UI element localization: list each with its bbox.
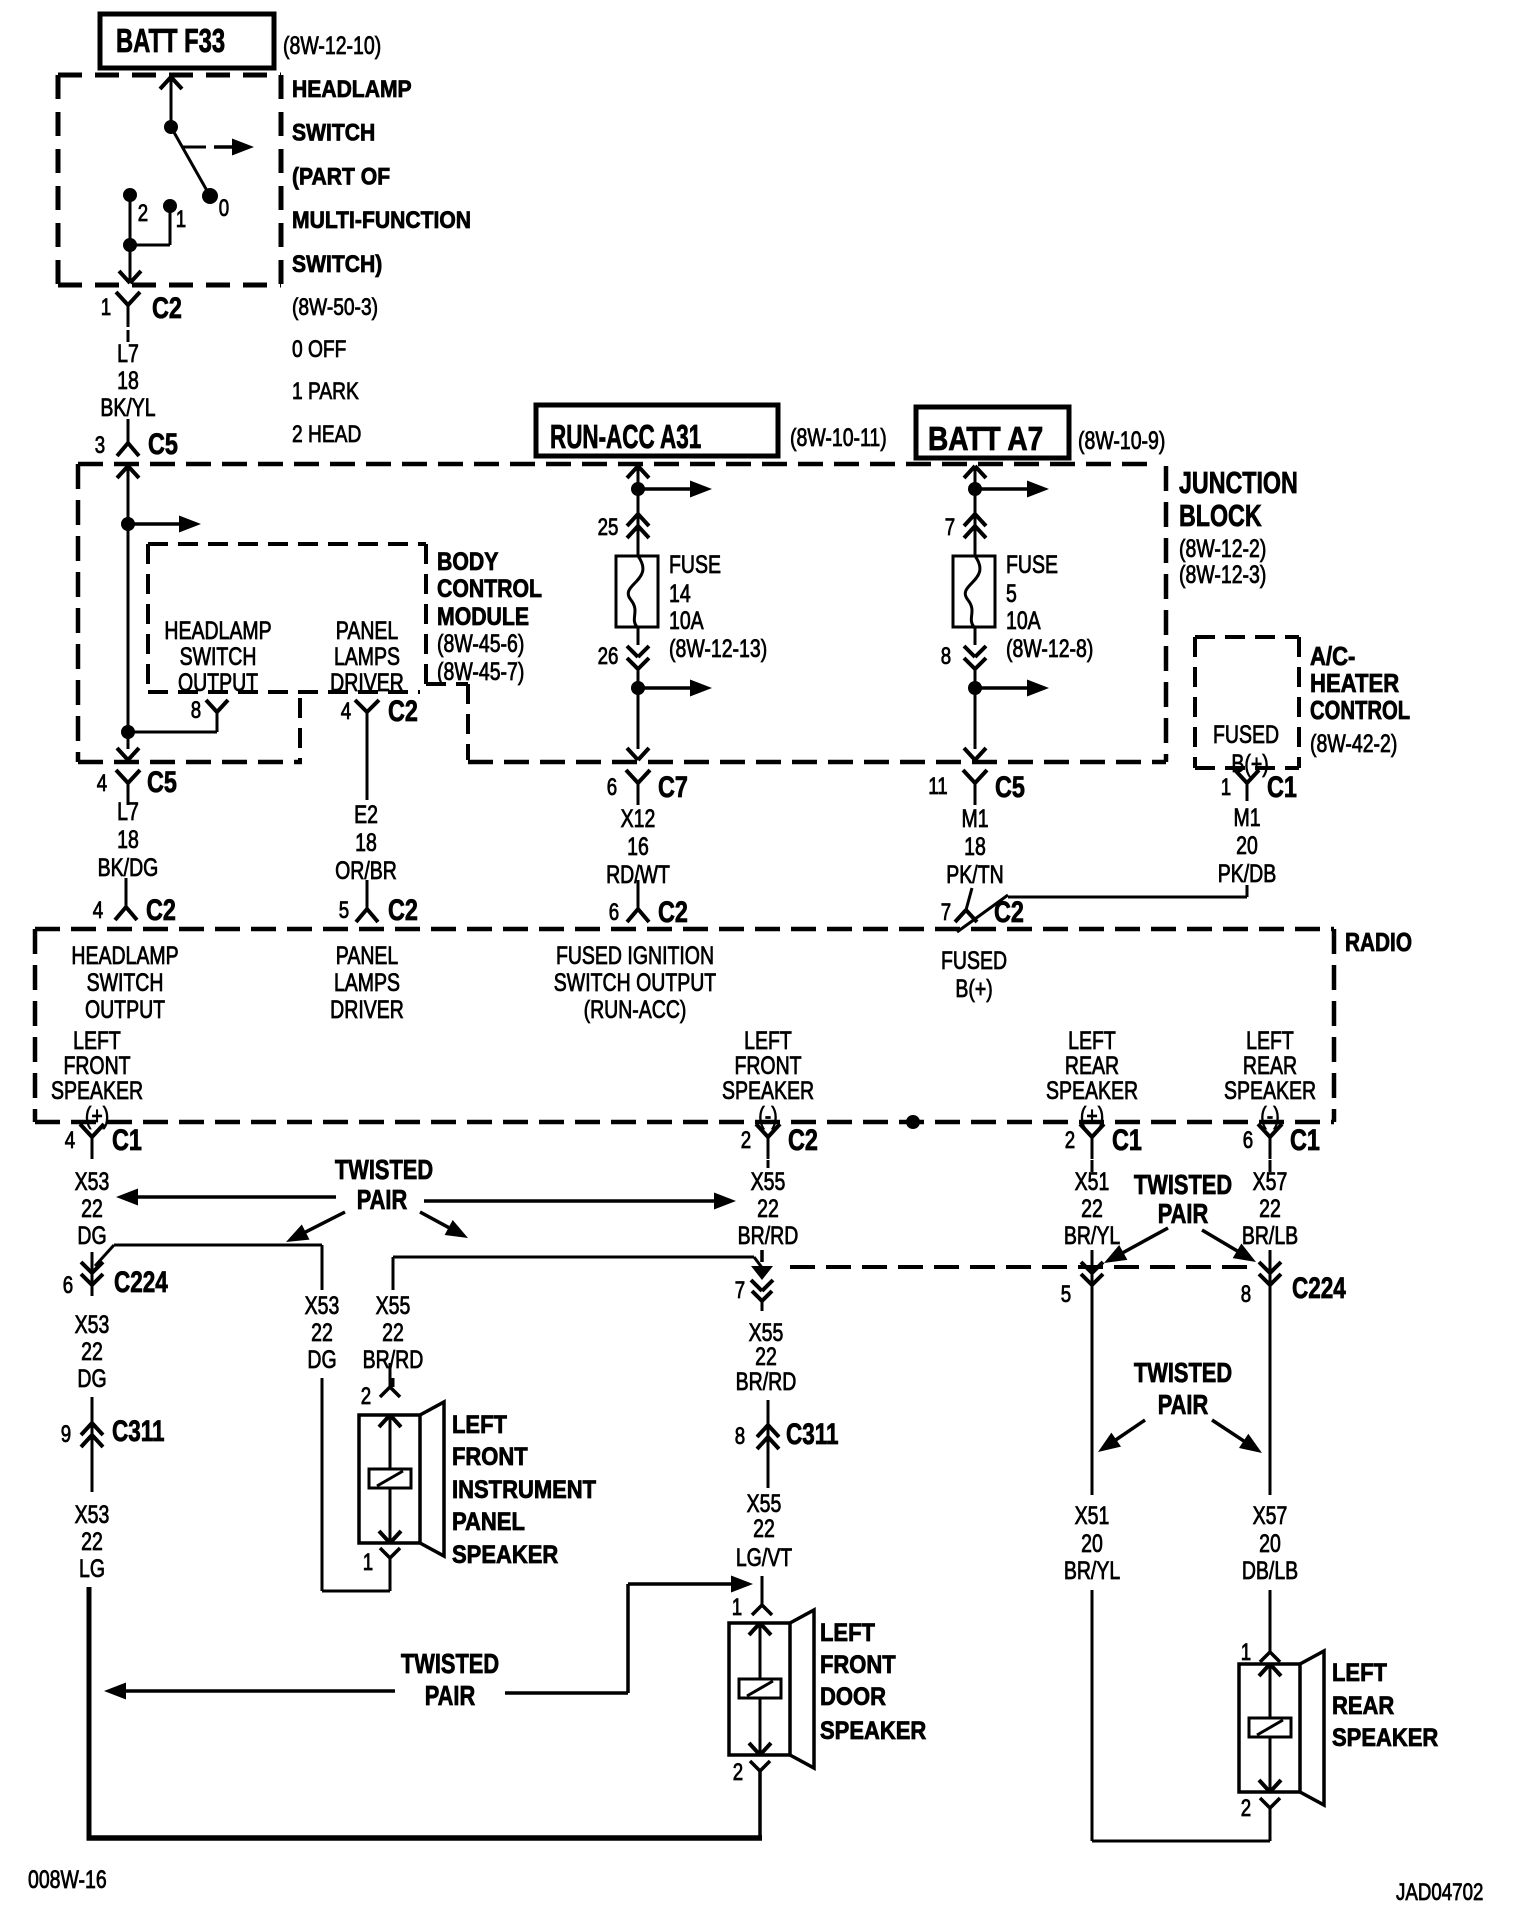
svg-text:BR/RD: BR/RD [736,1368,797,1396]
svg-text:CONTROL: CONTROL [437,574,542,602]
svg-text:BK/YL: BK/YL [100,394,155,422]
svg-text:DB/LB: DB/LB [1242,1557,1298,1585]
svg-text:C5: C5 [147,765,177,798]
svg-text:C1: C1 [1112,1123,1142,1156]
svg-text:INSTRUMENT: INSTRUMENT [452,1476,597,1504]
svg-text:DG: DG [77,1365,106,1393]
svg-text:(8W-45-7): (8W-45-7) [437,658,524,686]
svg-text:M1: M1 [961,805,988,833]
svg-text:BATT A7: BATT A7 [928,421,1043,458]
svg-text:22: 22 [755,1343,777,1371]
svg-text:X12: X12 [621,805,656,833]
svg-text:C5: C5 [995,770,1025,803]
svg-text:PAIR: PAIR [1158,1389,1209,1420]
svg-text:JUNCTION: JUNCTION [1179,465,1298,500]
svg-text:FUSED: FUSED [1213,721,1279,749]
svg-text:22: 22 [311,1319,333,1347]
svg-text:SPEAKER: SPEAKER [1332,1724,1438,1752]
svg-text:22: 22 [1081,1195,1103,1223]
svg-text:16: 16 [627,833,649,861]
svg-text:(PART OF: (PART OF [292,163,390,190]
svg-text:25: 25 [598,514,619,541]
svg-text:2: 2 [1241,1795,1251,1822]
svg-text:C5: C5 [148,427,178,460]
svg-text:MULTI-FUNCTION: MULTI-FUNCTION [292,207,471,234]
svg-text:14: 14 [669,580,691,608]
svg-text:26: 26 [598,643,619,670]
svg-text:0 OFF: 0 OFF [292,335,346,363]
svg-text:2: 2 [138,200,148,227]
svg-text:LEFT: LEFT [1332,1659,1388,1687]
svg-text:RUN-ACC A31: RUN-ACC A31 [550,418,701,455]
svg-text:PAIR: PAIR [357,1184,408,1215]
svg-text:DRIVER: DRIVER [330,669,404,697]
svg-text:BR/LB: BR/LB [1242,1222,1298,1250]
svg-text:6: 6 [609,899,619,926]
svg-text:RADIO: RADIO [1345,928,1412,957]
svg-text:X53: X53 [75,1311,110,1339]
svg-text:TWISTED: TWISTED [401,1648,499,1679]
svg-text:PAIR: PAIR [1158,1198,1209,1229]
svg-text:X55: X55 [751,1168,786,1196]
svg-text:HEADLAMP: HEADLAMP [71,942,178,970]
svg-text:2: 2 [1065,1127,1075,1154]
svg-text:8: 8 [1241,1281,1251,1308]
svg-text:C1: C1 [1267,770,1297,803]
svg-text:1: 1 [1241,1639,1251,1666]
svg-text:8: 8 [735,1423,745,1450]
svg-text:B(+): B(+) [955,975,992,1003]
svg-text:X53: X53 [75,1168,110,1196]
svg-text:C224: C224 [1292,1271,1346,1305]
svg-text:LG/VT: LG/VT [736,1544,793,1572]
svg-text:2: 2 [361,1383,371,1410]
svg-text:(-): (-) [758,1102,777,1130]
svg-text:1 PARK: 1 PARK [292,377,359,405]
svg-text:X57: X57 [1253,1502,1288,1530]
svg-text:LAMPS: LAMPS [334,969,400,997]
svg-text:BR/YL: BR/YL [1064,1222,1120,1250]
svg-text:SWITCH OUTPUT: SWITCH OUTPUT [554,969,717,997]
svg-text:008W-16: 008W-16 [28,1866,107,1894]
svg-text:L7: L7 [117,798,139,826]
svg-text:(8W-12-8): (8W-12-8) [1006,635,1093,663]
svg-text:6: 6 [1243,1127,1253,1154]
svg-text:1: 1 [1221,774,1231,801]
svg-text:2: 2 [741,1127,751,1154]
svg-text:22: 22 [753,1515,775,1543]
svg-text:A/C-: A/C- [1310,642,1355,671]
svg-text:20: 20 [1259,1530,1281,1558]
svg-text:E2: E2 [354,801,378,829]
svg-text:1: 1 [176,206,186,233]
svg-text:FUSED IGNITION: FUSED IGNITION [556,942,714,970]
svg-text:1: 1 [101,294,111,321]
svg-text:8: 8 [941,643,951,670]
svg-text:SWITCH: SWITCH [180,643,257,671]
svg-text:REAR: REAR [1243,1052,1297,1080]
svg-text:BK/DG: BK/DG [98,854,159,882]
svg-text:18: 18 [117,367,139,395]
svg-text:HEATER: HEATER [1310,669,1399,698]
svg-text:DG: DG [307,1346,336,1374]
svg-text:22: 22 [81,1528,103,1556]
svg-text:C2: C2 [152,291,182,324]
svg-text:22: 22 [81,1338,103,1366]
svg-text:(8W-50-3): (8W-50-3) [292,293,378,321]
svg-text:FUSED: FUSED [941,947,1007,975]
svg-text:HEADLAMP: HEADLAMP [292,76,412,103]
svg-text:SWITCH: SWITCH [87,969,164,997]
svg-text:(8W-12-10): (8W-12-10) [283,32,381,60]
svg-text:FUSE: FUSE [669,551,721,579]
svg-text:4: 4 [93,897,103,924]
svg-text:(8W-10-9): (8W-10-9) [1078,427,1165,455]
svg-text:10A: 10A [669,607,704,635]
svg-text:SWITCH): SWITCH) [292,251,382,278]
svg-text:22: 22 [382,1319,404,1347]
svg-text:(8W-10-11): (8W-10-11) [790,424,887,452]
svg-text:20: 20 [1236,832,1258,860]
svg-text:C1: C1 [1290,1123,1320,1156]
svg-text:SPEAKER: SPEAKER [1046,1077,1138,1105]
svg-text:M1: M1 [1233,804,1260,832]
svg-text:C1: C1 [112,1123,142,1156]
svg-text:X55: X55 [376,1292,411,1320]
svg-text:7: 7 [735,1277,745,1304]
svg-text:6: 6 [63,1272,73,1299]
svg-text:C311: C311 [786,1417,839,1451]
svg-text:BATT F33: BATT F33 [116,23,225,60]
svg-text:LEFT: LEFT [452,1411,508,1439]
svg-text:6: 6 [607,774,617,801]
svg-text:7: 7 [945,514,955,541]
svg-text:5: 5 [1006,580,1017,608]
svg-text:X55: X55 [747,1490,782,1518]
svg-text:LEFT: LEFT [1246,1027,1294,1055]
svg-text:LAMPS: LAMPS [334,643,400,671]
svg-text:BLOCK: BLOCK [1179,498,1262,533]
svg-text:DG: DG [77,1222,106,1250]
svg-text:PK/DB: PK/DB [1218,860,1276,888]
svg-text:TWISTED: TWISTED [335,1154,433,1185]
svg-text:BR/RD: BR/RD [738,1222,799,1250]
svg-text:SPEAKER: SPEAKER [722,1077,814,1105]
svg-text:FUSE: FUSE [1006,551,1058,579]
svg-text:CONTROL: CONTROL [1310,696,1410,725]
svg-text:8: 8 [191,697,201,724]
svg-text:C7: C7 [658,770,688,803]
svg-text:LEFT: LEFT [820,1619,876,1647]
svg-text:18: 18 [355,829,377,857]
svg-text:9: 9 [61,1421,71,1448]
svg-text:C2: C2 [146,893,176,926]
svg-text:10A: 10A [1006,607,1041,635]
svg-text:SPEAKER: SPEAKER [1224,1077,1316,1105]
svg-text:SPEAKER: SPEAKER [820,1717,926,1745]
svg-text:18: 18 [117,826,139,854]
svg-text:2 HEAD: 2 HEAD [292,420,361,448]
svg-text:PANEL: PANEL [336,942,398,970]
svg-text:LEFT: LEFT [1068,1027,1116,1055]
svg-text:REAR: REAR [1332,1692,1394,1720]
svg-text:FRONT: FRONT [820,1651,896,1679]
svg-text:TWISTED: TWISTED [1134,1357,1232,1388]
svg-text:TWISTED: TWISTED [1134,1169,1232,1200]
svg-text:C2: C2 [388,893,418,926]
svg-text:4: 4 [341,698,351,725]
svg-text:(8W-12-2): (8W-12-2) [1179,535,1266,563]
svg-text:C2: C2 [388,694,418,727]
svg-text:(8W-42-2): (8W-42-2) [1310,730,1397,758]
svg-text:(8W-12-3): (8W-12-3) [1179,561,1266,589]
svg-text:18: 18 [964,833,986,861]
svg-text:C311: C311 [112,1414,165,1448]
svg-text:(+): (+) [85,1102,109,1130]
svg-text:SPEAKER: SPEAKER [452,1541,558,1569]
svg-text:C224: C224 [114,1265,168,1299]
svg-text:OUTPUT: OUTPUT [178,669,258,697]
svg-text:(8W-12-13): (8W-12-13) [669,635,767,663]
svg-text:OUTPUT: OUTPUT [85,996,165,1024]
svg-text:1: 1 [363,1549,373,1576]
svg-text:SPEAKER: SPEAKER [51,1077,143,1105]
svg-text:20: 20 [1081,1530,1103,1558]
svg-text:JAD04702: JAD04702 [1396,1879,1483,1906]
svg-text:SWITCH: SWITCH [292,119,375,146]
svg-text:PK/TN: PK/TN [946,861,1003,889]
svg-text:4: 4 [97,770,107,797]
svg-text:BR/RD: BR/RD [363,1346,424,1374]
svg-text:7: 7 [941,899,951,926]
svg-text:11: 11 [928,773,947,800]
svg-text:(RUN-ACC): (RUN-ACC) [584,996,687,1024]
svg-text:FRONT: FRONT [452,1443,528,1471]
svg-text:BODY: BODY [437,547,499,575]
svg-text:1: 1 [732,1594,742,1621]
svg-text:4: 4 [65,1127,75,1154]
svg-text:PANEL: PANEL [336,617,398,645]
svg-text:22: 22 [81,1195,103,1223]
svg-text:3: 3 [95,432,105,459]
svg-text:FRONT: FRONT [734,1052,801,1080]
svg-text:(8W-45-6): (8W-45-6) [437,630,524,658]
svg-text:X51: X51 [1075,1502,1110,1530]
svg-text:X53: X53 [75,1501,110,1529]
svg-text:22: 22 [1259,1195,1281,1223]
svg-text:DOOR: DOOR [820,1683,886,1711]
svg-text:X53: X53 [305,1292,340,1320]
svg-text:DRIVER: DRIVER [330,996,404,1024]
svg-text:(-): (-) [1260,1102,1279,1130]
svg-text:FRONT: FRONT [63,1052,130,1080]
svg-text:C2: C2 [994,895,1024,928]
svg-text:BR/YL: BR/YL [1064,1557,1120,1585]
svg-text:LEFT: LEFT [744,1027,792,1055]
svg-text:REAR: REAR [1065,1052,1119,1080]
svg-text:0: 0 [219,195,229,222]
svg-text:MODULE: MODULE [437,602,529,630]
svg-text:PANEL: PANEL [452,1508,525,1536]
svg-text:LEFT: LEFT [73,1027,121,1055]
svg-text:2: 2 [733,1759,743,1786]
svg-text:C2: C2 [658,895,688,928]
svg-text:5: 5 [339,897,349,924]
svg-text:PAIR: PAIR [425,1680,476,1711]
svg-text:LG: LG [79,1555,105,1583]
svg-text:5: 5 [1061,1281,1071,1308]
svg-text:HEADLAMP: HEADLAMP [164,617,271,645]
svg-text:L7: L7 [117,340,139,368]
svg-text:22: 22 [757,1195,779,1223]
svg-text:C2: C2 [788,1123,818,1156]
